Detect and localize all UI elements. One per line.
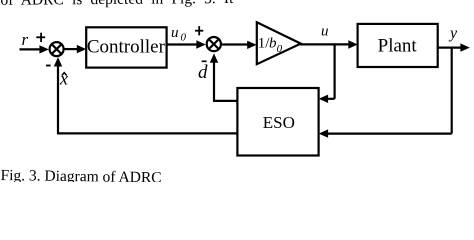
wire ESO output dbar to S2 — [210, 53, 238, 101]
label u0 — [171, 25, 187, 44]
label dbar — [198, 61, 208, 83]
summing junction S1 — [50, 42, 64, 56]
wire u branch down to ESO — [319, 43, 335, 103]
label xhat — [59, 68, 68, 88]
wire S2 to gain block — [222, 41, 257, 49]
svg-text:x: x — [59, 68, 68, 88]
svg-text:Plant: Plant — [378, 35, 418, 56]
block Plant — [358, 24, 438, 67]
wire Plant output y — [438, 43, 470, 51]
summing junction S2 — [207, 37, 221, 51]
label minus sign at summing junction S1 — [46, 65, 51, 67]
svg-text:ESO: ESO — [263, 113, 295, 132]
svg-text:y: y — [448, 25, 458, 42]
gain block 1/b0 triangle — [257, 22, 301, 64]
svg-text:u: u — [171, 25, 179, 41]
svg-text:Fig. 3. Diagram of ADRC: Fig. 3. Diagram of ADRC — [0, 167, 161, 182]
svg-text:r: r — [22, 30, 29, 49]
label plus sign at summing junction S1 — [36, 33, 45, 42]
block ESO — [237, 88, 318, 156]
wire Controller to summing junction S2 — [167, 40, 206, 48]
wire gain block to Plant (node u) — [300, 40, 358, 48]
svg-text:u: u — [321, 23, 329, 39]
svg-text:Controller: Controller — [87, 36, 166, 57]
wire y branch down to ESO — [319, 47, 452, 138]
label plus sign at summing junction S2 — [195, 26, 203, 35]
svg-text:0: 0 — [181, 32, 187, 44]
svg-text:0: 0 — [277, 43, 283, 55]
wire S1 to Controller — [65, 45, 87, 53]
wire r input — [20, 45, 49, 53]
svg-text:d: d — [198, 62, 208, 83]
block Controller — [86, 27, 166, 67]
wire ESO output xhat to S1 — [54, 57, 238, 133]
